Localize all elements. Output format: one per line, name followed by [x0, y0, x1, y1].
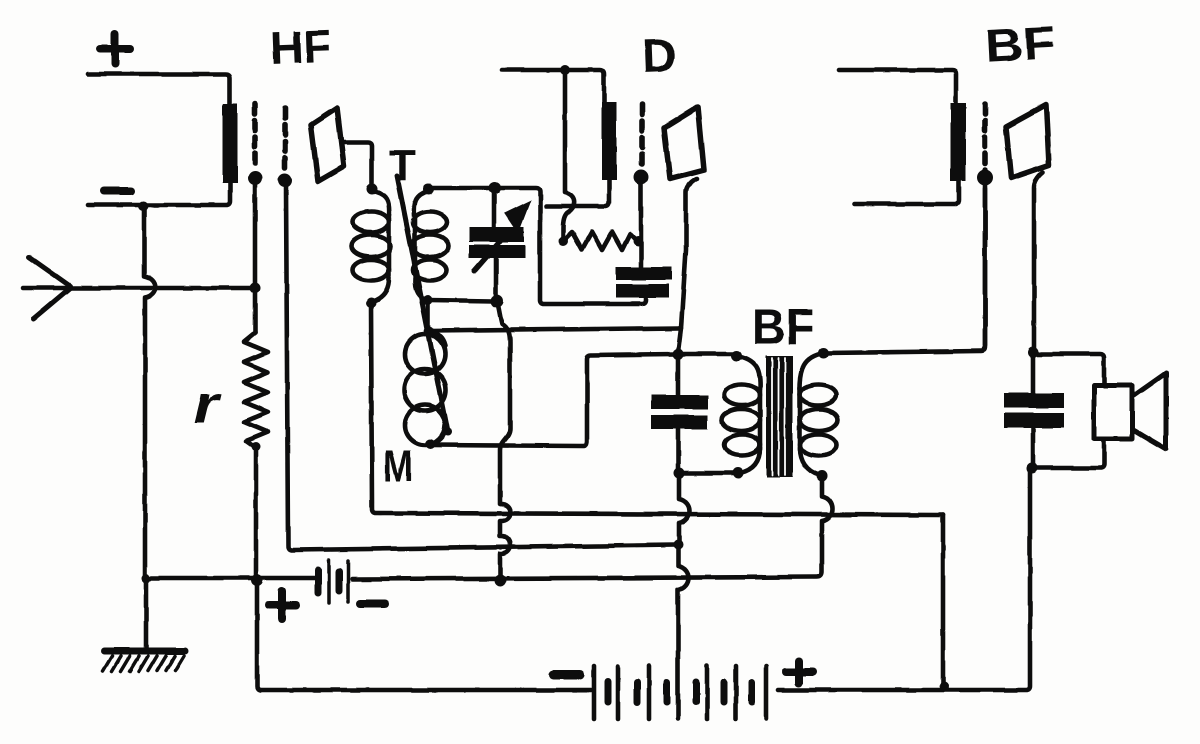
svg-text:r: r	[193, 375, 223, 435]
svg-text:BF: BF	[984, 16, 1057, 72]
svg-text:T: T	[389, 141, 416, 190]
svg-text:M: M	[383, 442, 413, 491]
svg-text:D: D	[641, 29, 677, 83]
svg-text:HF: HF	[269, 20, 332, 74]
svg-text:BF: BF	[752, 299, 814, 355]
